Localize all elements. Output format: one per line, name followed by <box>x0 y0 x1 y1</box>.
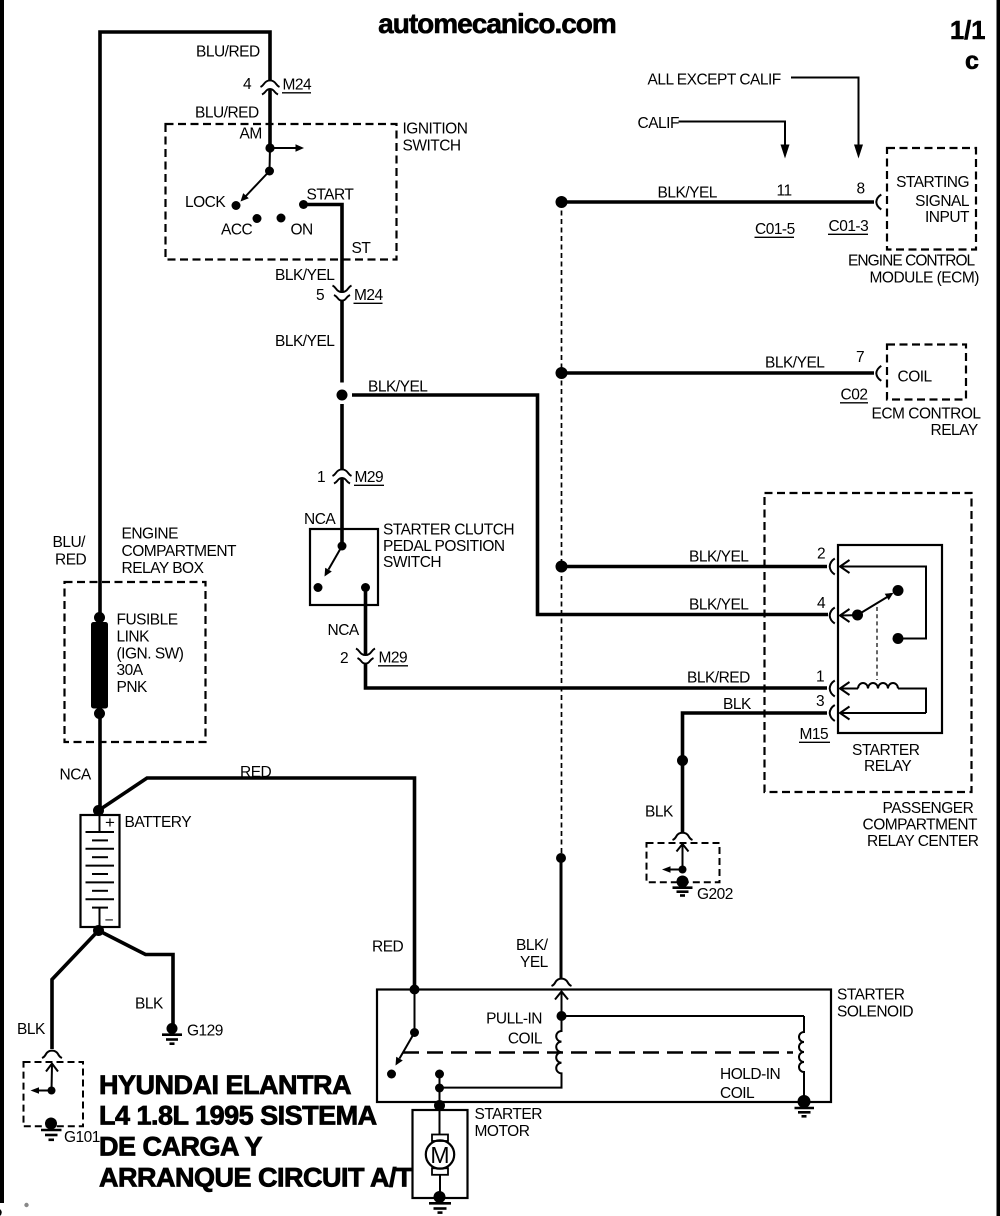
svg-text:BLK/YEL: BLK/YEL <box>275 333 335 350</box>
arrow right from AM node <box>270 147 296 149</box>
svg-text:LINK: LINK <box>117 629 151 646</box>
connector M24 (pin 5) <box>333 286 352 301</box>
svg-text:RED: RED <box>55 552 87 569</box>
connector arc pin 2 <box>830 559 835 575</box>
svg-text:BLK: BLK <box>135 996 164 1013</box>
svg-text:7: 7 <box>856 349 864 366</box>
svg-text:INPUT: INPUT <box>925 209 970 226</box>
ECM dashed box <box>887 148 976 250</box>
relay armature arm arrow <box>858 597 889 616</box>
starter relay box <box>838 545 942 733</box>
connector arc pin 1 <box>830 681 835 697</box>
svg-text:M24: M24 <box>354 287 384 304</box>
ignition rotor arm toward LOCK <box>244 171 270 198</box>
connector M29 (pin 2) <box>356 649 375 664</box>
wire CALIF pointer <box>679 122 786 147</box>
pin 1 terminal arrow <box>840 682 850 695</box>
relay armature dot <box>852 610 863 621</box>
svg-text:STARTING: STARTING <box>896 174 969 191</box>
wire ST from START contact <box>304 205 343 292</box>
svg-text:SIGNAL: SIGNAL <box>915 193 970 210</box>
node solenoid feed dot <box>410 985 420 995</box>
connector M29 (pin 1) <box>333 469 352 483</box>
svg-text:STARTER: STARTER <box>852 742 920 759</box>
fusible link top dot <box>94 612 105 623</box>
svg-text:DE CARGA Y: DE CARGA Y <box>99 1132 263 1162</box>
svg-text:SWITCH: SWITCH <box>383 554 441 571</box>
svg-text:START: START <box>307 187 355 204</box>
svg-text:G101: G101 <box>64 1129 100 1146</box>
ignition switch dashed box <box>166 124 397 260</box>
connector arc pin 4 <box>830 608 835 624</box>
G101 arrow left <box>38 1090 52 1092</box>
svg-text:2: 2 <box>340 650 348 667</box>
starter motor box <box>413 1110 468 1198</box>
svg-text:ENGINE CONTROL: ENGINE CONTROL <box>848 253 976 270</box>
fusible link (IGN. SW) 30A PNK <box>91 622 108 709</box>
relay upper contact dot <box>893 585 904 596</box>
wire NCA fusible link to battery <box>98 714 102 811</box>
relay actuating link (dashed) <box>876 607 878 680</box>
node pull-in coil top dot <box>557 1011 567 1021</box>
svg-text:M24: M24 <box>283 77 313 94</box>
connector arc at ECM pin 8 <box>876 195 881 210</box>
svg-text:+: + <box>105 813 115 832</box>
svg-text:M: M <box>430 1142 449 1168</box>
node dashed-to-solid dot on solenoid feed <box>556 853 566 863</box>
svg-text:CALIF: CALIF <box>638 115 679 132</box>
svg-text:RED: RED <box>240 764 272 781</box>
pull-in coil <box>440 1011 562 1088</box>
svg-text:BLK/RED: BLK/RED <box>687 670 750 687</box>
svg-text:HYUNDAI ELANTRA: HYUNDAI ELANTRA <box>99 1070 351 1100</box>
svg-text:BLK: BLK <box>645 804 674 821</box>
svg-text:STARTER: STARTER <box>837 987 905 1004</box>
svg-text:LOCK: LOCK <box>185 194 226 211</box>
svg-text:COMPARTMENT: COMPARTMENT <box>122 543 238 560</box>
svg-text:STARTER CLUTCH: STARTER CLUTCH <box>383 522 514 539</box>
svg-text:COMPARTMENT: COMPARTMENT <box>863 817 979 834</box>
svg-text:ACC: ACC <box>221 222 253 239</box>
svg-text:YEL: YEL <box>520 954 549 971</box>
svg-text:2: 2 <box>817 546 825 563</box>
svg-text:NCA: NCA <box>328 622 360 639</box>
connector hat at starter solenoid <box>552 979 572 986</box>
svg-text:NCA: NCA <box>304 511 336 528</box>
wire ALL EXCEPT CALIF pointer <box>791 78 859 147</box>
relay fixed contact dot (pin 2 side) <box>893 633 904 644</box>
solenoid switch arm arrow <box>400 1033 415 1059</box>
node battery negative junction dot <box>93 925 104 936</box>
wire BLU/RED below M24 into ignition switch <box>268 90 272 149</box>
svg-text:ECM CONTROL: ECM CONTROL <box>872 406 982 423</box>
svg-text:4: 4 <box>243 76 252 93</box>
svg-text:G202: G202 <box>697 886 733 903</box>
svg-text:IGNITION: IGNITION <box>403 121 468 138</box>
svg-text:PULL-IN: PULL-IN <box>486 1011 542 1028</box>
node BLK/YEL pin2-branch dot <box>556 561 568 573</box>
wire BLK down to G202 <box>681 761 685 833</box>
wire BLK/YEL to starter relay pin 2 <box>562 565 828 569</box>
node BLK/YEL coil-branch dot <box>556 367 568 379</box>
svg-text:BLK: BLK <box>17 1021 46 1038</box>
pedal switch input dot <box>338 542 347 551</box>
svg-text:BLK: BLK <box>723 696 752 713</box>
solenoid switch input stub <box>414 990 416 1033</box>
wire BLK/YEL to ECM control relay coil <box>562 371 875 375</box>
svg-text:ALL EXCEPT CALIF: ALL EXCEPT CALIF <box>648 72 781 89</box>
svg-text:PEDAL POSITION: PEDAL POSITION <box>383 538 505 555</box>
svg-text:C01-3: C01-3 <box>829 218 869 235</box>
battery B1 <box>81 813 120 929</box>
svg-text:STARTER: STARTER <box>475 1106 543 1123</box>
connector M24 (pin 4) <box>261 80 280 94</box>
connector arc at ECM control relay pin 7 <box>876 366 881 381</box>
svg-text:MODULE (ECM): MODULE (ECM) <box>870 270 980 287</box>
svg-text:COIL: COIL <box>720 1085 755 1102</box>
pedal switch output dot <box>361 583 370 592</box>
wire BLK battery to G129 <box>99 931 174 1025</box>
wire BLU/RED battery feed (left vertical + top run to M24) <box>100 32 270 616</box>
svg-text:RED: RED <box>372 939 404 956</box>
contact ACC dot <box>253 214 262 223</box>
svg-text:RELAY: RELAY <box>931 422 978 439</box>
node AM dot <box>265 143 274 152</box>
svg-text:AM: AM <box>240 126 262 143</box>
solenoid actuating link (dashed) <box>403 1051 793 1053</box>
svg-text:ON: ON <box>291 222 313 239</box>
node BLK/YEL junction dot <box>337 390 348 401</box>
node battery positive junction dot <box>93 805 104 816</box>
wire BLK/YEL down to starter solenoid <box>560 858 563 979</box>
svg-text:C02: C02 <box>841 387 868 404</box>
G101 mating arrow up <box>46 1064 58 1072</box>
svg-text:BLK/YEL: BLK/YEL <box>765 355 825 372</box>
svg-text:BLK/: BLK/ <box>516 937 549 954</box>
svg-text:PNK: PNK <box>117 679 149 696</box>
solenoid contact dot left <box>387 1070 396 1079</box>
ECM control relay COIL dashed box <box>887 345 966 400</box>
svg-text:BLU/RED: BLU/RED <box>195 105 259 122</box>
wire BLK/RED to starter relay pin 1 <box>366 664 828 689</box>
connector arc pin 3 <box>830 705 835 721</box>
svg-text:1/1: 1/1 <box>950 17 985 45</box>
svg-text:8: 8 <box>857 181 865 198</box>
connector hat at G202 <box>673 833 693 840</box>
svg-text:1: 1 <box>317 469 325 486</box>
svg-text:automecanico.com: automecanico.com <box>378 8 616 39</box>
svg-text:RELAY CENTER: RELAY CENTER <box>867 833 979 850</box>
wire RED battery to starter solenoid <box>99 778 415 990</box>
svg-text:BLK/YEL: BLK/YEL <box>689 597 749 614</box>
node BLK/YEL main dot <box>556 196 568 208</box>
svg-text:M29: M29 <box>379 650 408 667</box>
svg-text:RELAY: RELAY <box>864 758 911 775</box>
node rotor pivot dot <box>265 167 274 176</box>
svg-text:30A: 30A <box>117 662 144 679</box>
svg-text:C01-5: C01-5 <box>755 221 795 238</box>
connector hat at G101 <box>42 1051 62 1058</box>
wire BLK/YEL branch to starter relay pin 4 <box>352 395 828 615</box>
G202 dashed box <box>647 843 720 882</box>
starter solenoid box <box>377 990 831 1103</box>
solenoid mating arrow up <box>555 992 568 1000</box>
svg-text:BLK/YEL: BLK/YEL <box>275 267 335 284</box>
starter motor M1 <box>426 1106 454 1198</box>
wire BLK from starter relay pin 3 <box>683 713 828 760</box>
svg-text:ENGINE: ENGINE <box>122 526 179 543</box>
svg-text:SWITCH: SWITCH <box>403 138 461 155</box>
passenger compartment relay center dashed box <box>765 493 972 792</box>
svg-text:5: 5 <box>316 287 324 304</box>
ground at hold-in coil <box>798 1095 811 1108</box>
svg-text:M15: M15 <box>800 726 829 743</box>
fusible link bottom dot <box>94 708 105 719</box>
svg-text:BLK/YEL: BLK/YEL <box>689 549 749 566</box>
svg-text:−: − <box>105 912 114 929</box>
solenoid contact dot right <box>435 1070 444 1079</box>
svg-text:NCA: NCA <box>60 767 92 784</box>
wire AM to rotor pivot <box>269 148 272 171</box>
svg-text:COIL: COIL <box>898 369 933 386</box>
node starter motor feed dot <box>434 1100 445 1111</box>
ground at starter motor <box>434 1191 446 1203</box>
pedal switch arm arrow <box>329 546 343 570</box>
solenoid switch pivot dot <box>410 1028 419 1037</box>
svg-text:L4 1.8L 1995 SISTEMA: L4 1.8L 1995 SISTEMA <box>99 1101 377 1131</box>
svg-text:11: 11 <box>777 183 792 200</box>
pin 4 terminal arrow <box>840 609 850 622</box>
G202 tap dot <box>679 866 687 874</box>
node BLK junction dot <box>677 755 688 766</box>
svg-text:SOLENOID: SOLENOID <box>837 1004 913 1021</box>
hold-in coil <box>799 1016 804 1102</box>
pin 3 terminal arrow and internal wire <box>840 707 850 720</box>
G202 arrow left <box>669 869 683 871</box>
ground G129 <box>167 1023 178 1034</box>
svg-text:BLU/: BLU/ <box>53 534 87 551</box>
svg-text:COIL: COIL <box>508 1031 543 1048</box>
starter relay coil <box>858 683 898 689</box>
pin 2 terminal arrow and internal wire <box>840 560 850 573</box>
wire NCA into pedal switch <box>340 479 344 547</box>
svg-text:PASSENGER: PASSENGER <box>883 800 974 817</box>
pedal switch contact dot left <box>314 583 323 592</box>
svg-text:RELAY BOX: RELAY BOX <box>122 560 205 577</box>
svg-text:3: 3 <box>816 693 824 710</box>
svg-text:BLU/RED: BLU/RED <box>196 44 260 61</box>
G202 mating arrow up <box>677 844 689 852</box>
svg-text:MOTOR: MOTOR <box>475 1123 530 1140</box>
G101 dashed box <box>24 1062 84 1126</box>
wire BLK/YEL junction to M29-1 <box>340 404 344 469</box>
wire pull-in top to hold-in top <box>562 1015 805 1017</box>
svg-text:M29: M29 <box>355 469 384 486</box>
svg-text:HOLD-IN: HOLD-IN <box>720 1066 780 1083</box>
wire BLK/YEL to ECM <box>562 200 875 204</box>
svg-text:c: c <box>965 47 979 75</box>
svg-text:4: 4 <box>817 595 826 612</box>
solenoid output stub <box>439 1074 441 1106</box>
svg-text:BATTERY: BATTERY <box>125 814 192 831</box>
ground G202 <box>677 876 689 888</box>
svg-text:ST: ST <box>352 240 372 257</box>
contact START dot <box>299 200 308 209</box>
svg-text:ARRANQUE CIRCUIT A/T: ARRANQUE CIRCUIT A/T <box>99 1163 413 1193</box>
wire (dashed) BLK/YEL distribution <box>561 202 563 858</box>
svg-text:1: 1 <box>816 669 824 686</box>
wire BLK battery to G101 <box>52 931 99 1050</box>
stray mark <box>24 1203 28 1207</box>
svg-text:(IGN. SW): (IGN. SW) <box>117 646 184 663</box>
ground G101 <box>45 1118 57 1130</box>
contact ON dot <box>277 214 286 223</box>
wire BLK/YEL from M24-5 to junction <box>340 301 344 383</box>
engine compartment relay box dashed box <box>65 582 206 742</box>
svg-text:BLK/YEL: BLK/YEL <box>658 185 718 202</box>
svg-text:BLK/YEL: BLK/YEL <box>368 379 428 396</box>
contact LOCK dot <box>232 201 241 210</box>
svg-text:FUSIBLE: FUSIBLE <box>117 612 178 629</box>
starter clutch pedal position switch box <box>310 529 378 605</box>
wire NCA from pedal switch to M29-2 <box>364 588 368 656</box>
node pull-in coil return dot <box>435 1084 444 1093</box>
G101 tap dot <box>48 1087 56 1095</box>
svg-text:G129: G129 <box>187 1023 223 1040</box>
